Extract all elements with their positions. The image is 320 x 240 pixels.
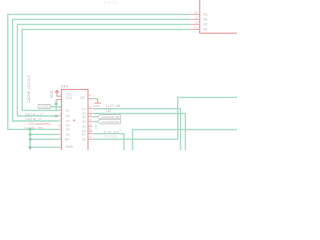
pin stub U14 pin 19 xyxy=(88,138,93,140)
wire from flag to U14 pin 2 xyxy=(52,106,61,108)
IC U14 body xyxy=(62,90,89,153)
svg-text:NC: NC xyxy=(203,13,208,17)
pin stub U14 pin 5 xyxy=(59,124,62,126)
junction at row y=116 xyxy=(55,115,58,118)
svg-text:PK: PK xyxy=(94,125,98,129)
svg-text:rev 2: rev 2 xyxy=(103,4,110,8)
wire corner net from bottom edge up at x=132.5 then off right edge xyxy=(133,130,238,150)
svg-text:D 5 U11: D 5 U11 xyxy=(104,134,117,138)
wire tap to U14 pin 8 xyxy=(30,138,59,140)
wire U14 pin 15 to flag xyxy=(93,121,97,123)
pin stub U14 OE (pin 11) xyxy=(88,98,93,100)
wire net D5 from U14 pin 19 right, up at x=177.7, off right edge xyxy=(93,97,237,139)
wire net CACHE_D15 (top row 4 to NC pin, down to row y=110.4) xyxy=(22,29,190,110)
wire net CACHE_CLK (top row 1 to NC pin, down left side to flag row) xyxy=(8,14,190,129)
junction at bus top xyxy=(29,128,32,131)
label flag CACHEWR SEL xyxy=(97,115,120,119)
connector U16 body (top right, clipped) xyxy=(200,0,237,33)
wire tap to U14 pin 9 xyxy=(30,146,59,148)
junction at tap row y=139.3 xyxy=(29,138,32,141)
pin stub connector pin B27 xyxy=(190,13,200,15)
svg-text:D5: D5 xyxy=(66,128,70,132)
svg-text:C21: C21 xyxy=(106,109,112,113)
svg-text:GND: GND xyxy=(66,145,74,149)
wire tap to U14 pin 7 xyxy=(30,133,59,135)
svg-text:CACHE_C17: CACHE_C17 xyxy=(25,112,44,116)
pin stub U14 pin 6 xyxy=(59,128,62,130)
VCC supply symbol stem to U14 VCC pin xyxy=(57,90,62,96)
svg-text:B27: B27 xyxy=(195,13,200,15)
svg-text:Q3: Q3 xyxy=(82,115,86,119)
wire CLK branch vertical x=56.2 xyxy=(55,100,57,111)
svg-text:CACHERD SEL: CACHERD SEL xyxy=(101,120,120,124)
pin stub connector pin C2x xyxy=(190,28,200,30)
wire net CLK7 from U14 pin 12 right then down at x=180.5 xyxy=(93,109,181,150)
svg-text:NC: NC xyxy=(203,18,208,22)
pin stub U14 pin 7 xyxy=(59,133,62,135)
pin stub U14 pin 16 xyxy=(88,125,93,127)
ground symbol bar xyxy=(94,102,101,104)
pin stub U14 pin 2 xyxy=(59,109,62,111)
pin stub U14 pin 18 xyxy=(88,133,93,135)
svg-text:GND: GND xyxy=(93,104,101,108)
label flag CACHE CLK (left of U14) xyxy=(38,105,52,109)
wire net C21 from U14 pin 13 right then down at x=185.4 xyxy=(93,114,186,151)
pin stub U14 pin 15 xyxy=(88,121,93,123)
wire vertical bus segment at x=30.1 xyxy=(29,129,31,147)
svg-text:CACHE CLK: CACHE CLK xyxy=(39,105,54,109)
VCC supply symbol arrow xyxy=(54,89,59,92)
pin stub U14 pin 12 xyxy=(88,108,93,110)
pin stub U14 pin 8 xyxy=(59,138,62,140)
svg-text:OE: OE xyxy=(80,96,86,100)
svg-text:D7: D7 xyxy=(66,137,70,141)
junction on CLK branch xyxy=(55,102,58,105)
junction at tap row y=134.4 xyxy=(29,133,32,136)
svg-text:Q8: Q8 xyxy=(82,137,86,141)
wire U14 OE to ground xyxy=(93,98,98,100)
svg-text:11: 11 xyxy=(89,95,92,97)
svg-text:NC: NC xyxy=(203,23,208,27)
svg-text:U14: U14 xyxy=(61,84,69,89)
pin stub entering from below at x=30.1 xyxy=(29,147,31,150)
pin stub connector pin C17 xyxy=(190,18,200,20)
ground symbol stem xyxy=(97,99,99,104)
svg-text:NC: NC xyxy=(203,28,208,32)
svg-text:D2: D2 xyxy=(66,114,70,118)
label flag CACHERD SEL xyxy=(97,119,120,124)
pin stub U14 pin 9 xyxy=(59,146,62,148)
svg-text:CLK7 U15: CLK7 U15 xyxy=(106,104,121,108)
pin stub U14 pin 17 xyxy=(88,130,93,132)
pin stub connector pin C1x xyxy=(190,23,200,25)
pin stub U14 CLK xyxy=(56,99,61,101)
svg-text:CACHEWR SEL: CACHEWR SEL xyxy=(101,115,121,119)
svg-text:Q1: Q1 xyxy=(82,107,86,111)
svg-text:VCC: VCC xyxy=(49,90,54,99)
junction at tap row y=147.2 xyxy=(29,146,32,149)
svg-text:D1: D1 xyxy=(66,109,70,113)
svg-text:C17: C17 xyxy=(195,18,200,20)
wire net D51 from U14 pin 18 right then down at x=123.9 xyxy=(93,134,124,150)
svg-text:Q7: Q7 xyxy=(82,133,86,137)
wire U14 pin 14 to flag xyxy=(93,116,97,118)
pin stub U14 pin 4 xyxy=(59,120,62,122)
svg-text:CACHE_D15 U12: CACHE_D15 U12 xyxy=(27,75,31,103)
svg-text:CLK: CLK xyxy=(66,96,73,100)
svg-text:Q5: Q5 xyxy=(82,125,86,129)
wire net CACHE_C17 (top row 3 to NC pin, down to row y=116) xyxy=(17,24,190,116)
pin stub U14 pin 3 xyxy=(59,115,62,117)
wire net CACHE_C7 (top row 2 to NC pin, down to row y=121) xyxy=(13,19,190,121)
svg-text:D6: D6 xyxy=(66,133,70,137)
svg-text:2: 2 xyxy=(119,128,121,132)
pin stub U14 pin 14 xyxy=(88,116,93,118)
svg-text:CACHE_7D5: CACHE_7D5 xyxy=(25,126,44,130)
svg-text:CACHE_C7: CACHE_C7 xyxy=(25,117,42,121)
U14 origin cross xyxy=(73,119,76,122)
pin stub U14 pin 13 xyxy=(88,113,93,115)
svg-text:Q4: Q4 xyxy=(82,120,86,124)
